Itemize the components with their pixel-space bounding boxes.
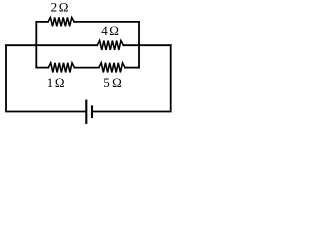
svg-text:Ω: Ω xyxy=(59,0,69,14)
svg-text:Ω: Ω xyxy=(55,75,65,90)
svg-text:1: 1 xyxy=(47,75,54,90)
svg-text:2: 2 xyxy=(51,0,58,14)
svg-text:Ω: Ω xyxy=(112,75,122,90)
svg-text:5: 5 xyxy=(103,75,110,90)
svg-text:Ω: Ω xyxy=(109,23,119,38)
svg-text:4: 4 xyxy=(101,23,108,38)
